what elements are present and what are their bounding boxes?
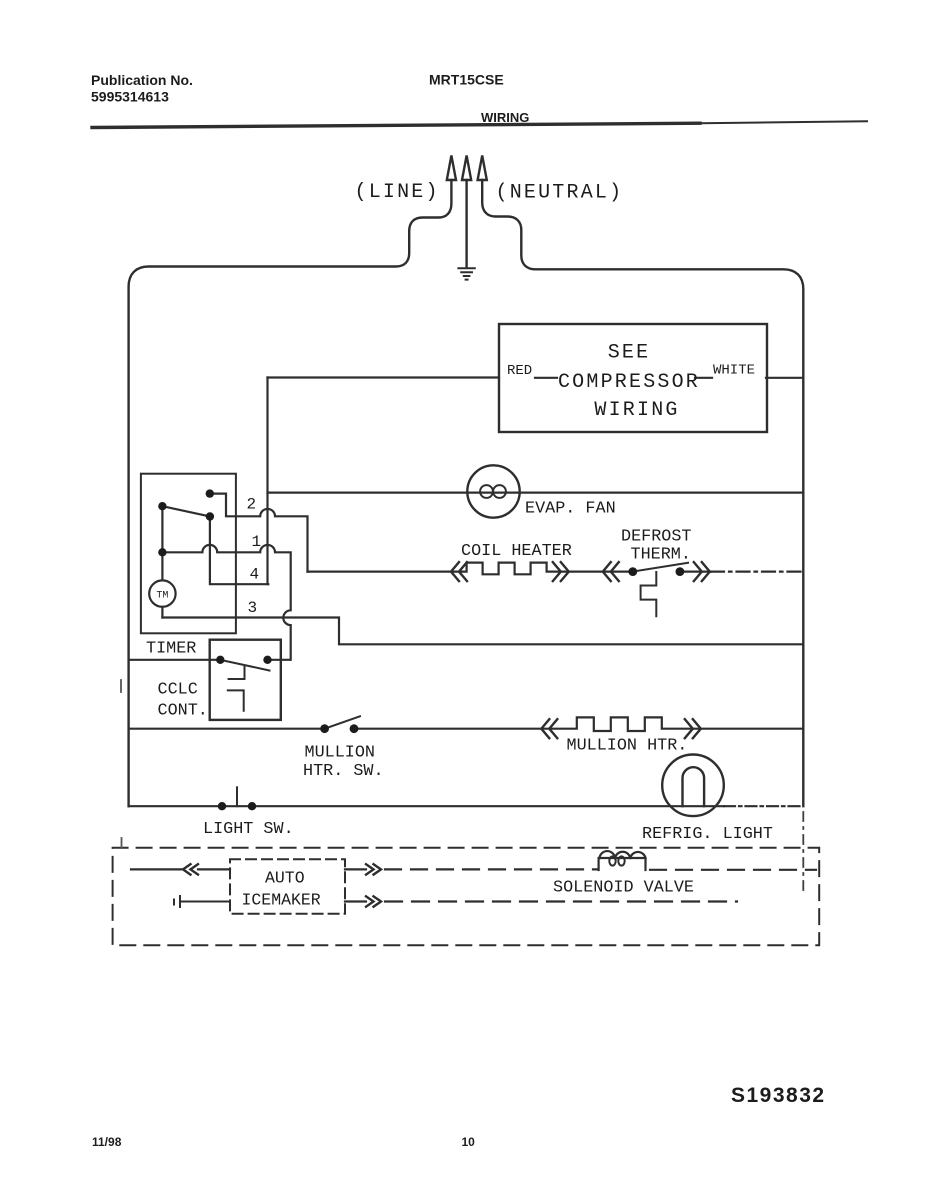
svg-text:EVAP. FAN: EVAP. FAN: [525, 500, 616, 519]
svg-text:3: 3: [248, 599, 258, 617]
svg-text:COMPRESSOR: COMPRESSOR: [558, 371, 700, 394]
svg-text:WIRING: WIRING: [481, 110, 529, 125]
svg-text:CCLC: CCLC: [158, 681, 198, 700]
svg-text:MULLION: MULLION: [305, 744, 376, 763]
svg-text:(LINE): (LINE): [355, 181, 440, 204]
svg-text:WHITE: WHITE: [713, 363, 755, 379]
svg-text:S193832: S193832: [731, 1084, 826, 1107]
svg-text:11/98: 11/98: [92, 1135, 122, 1149]
svg-text:COIL HEATER: COIL HEATER: [461, 542, 572, 561]
svg-text:RED: RED: [507, 363, 532, 379]
svg-text:SOLENOID VALVE: SOLENOID VALVE: [553, 879, 694, 898]
svg-text:ICEMAKER: ICEMAKER: [242, 891, 321, 910]
svg-text:MRT15CSE: MRT15CSE: [429, 72, 504, 88]
svg-text:(NEUTRAL): (NEUTRAL): [496, 182, 624, 205]
svg-text:HTR. SW.: HTR. SW.: [303, 762, 384, 781]
svg-text:TM: TM: [156, 591, 168, 602]
svg-text:LIGHT SW.: LIGHT SW.: [203, 820, 294, 839]
svg-text:CONT.: CONT.: [158, 702, 208, 721]
svg-text:10: 10: [462, 1135, 476, 1149]
svg-text:2: 2: [247, 496, 257, 514]
svg-text:Publication No.: Publication No.: [91, 72, 193, 88]
svg-text:WIRING: WIRING: [594, 399, 679, 422]
svg-text:1: 1: [252, 533, 262, 551]
svg-text:MULLION HTR.: MULLION HTR.: [567, 737, 688, 756]
svg-text:REFRIG. LIGHT: REFRIG. LIGHT: [642, 825, 773, 844]
svg-text:THERM.: THERM.: [631, 546, 691, 565]
svg-text:SEE: SEE: [608, 342, 651, 365]
svg-text:TIMER: TIMER: [146, 640, 196, 659]
svg-text:DEFROST: DEFROST: [621, 528, 692, 547]
svg-text:AUTO: AUTO: [265, 869, 305, 888]
svg-text:4: 4: [250, 566, 260, 584]
svg-text:5995314613: 5995314613: [91, 89, 169, 105]
